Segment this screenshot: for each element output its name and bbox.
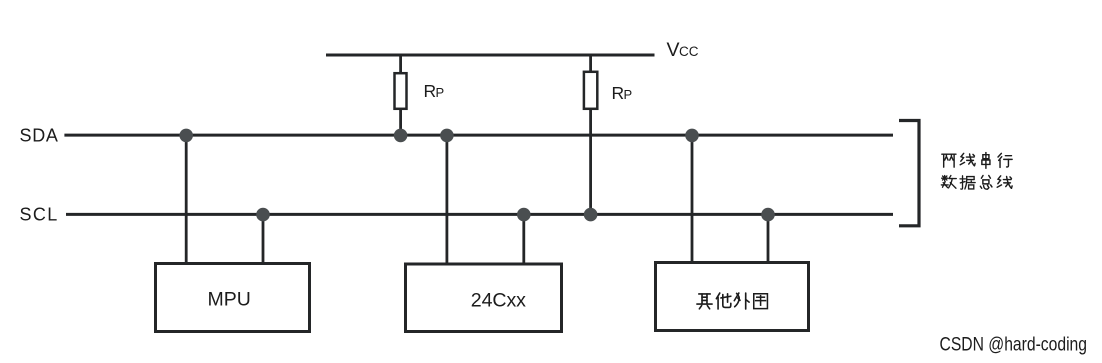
wire Vcc rail to RP1 [399,55,402,75]
junction dot SCL-MPU [256,208,270,222]
wire SCL to peripheral [767,214,770,262]
box peripheral (其他外围) [656,263,809,331]
junction dot SDA-RP1 [394,129,408,143]
junction dot SDA-MPU [179,129,193,143]
svg-text:V: V [667,39,680,61]
svg-text:P: P [436,85,445,100]
wire SCL to 24Cxx [522,214,525,263]
bracket (two-wire bus brace) [899,121,919,226]
label 两线串行 [942,153,1012,168]
label Vcc [667,39,699,61]
label RP (RP2) [612,83,633,103]
box 24Cxx [406,264,562,332]
svg-text:R: R [612,83,625,103]
wire SDA to peripheral (crosses SCL, no junction) [691,135,694,262]
junction dot SCL-peripheral [761,208,775,222]
SCL bus wire [66,213,893,216]
wire Vcc rail to RP2 [589,55,592,73]
junction dot SDA-peripheral [685,129,699,143]
Vcc rail [326,54,655,57]
svg-text:SCL: SCL [20,205,59,225]
svg-text:CC: CC [679,44,699,59]
junction dot SDA-24Cxx [440,129,454,143]
junction dot SCL-24Cxx [517,208,531,222]
junction dot SCL-RP2 [584,208,598,222]
svg-text:CSDN @hard-coding: CSDN @hard-coding [940,335,1088,356]
svg-text:MPU: MPU [208,289,251,311]
svg-text:R: R [424,81,437,101]
box MPU [156,264,310,332]
resistor RP2 [584,72,597,109]
svg-text:24Cxx: 24Cxx [471,290,526,312]
wire SDA to 24Cxx [445,135,448,263]
wire RP2 to SCL (crosses SDA, no junction) [589,108,592,214]
resistor RP1 [395,73,407,109]
label 数据总线 [941,176,1012,190]
wire SCL to MPU [262,214,265,263]
wire SDA to MPU [185,135,188,263]
SDA bus wire [64,134,893,137]
svg-text:SDA: SDA [20,126,59,146]
svg-text:P: P [624,87,633,102]
label RP (RP1) [424,81,445,101]
label 其他外围 [697,293,768,309]
wire RP1 to SDA node [399,108,402,135]
